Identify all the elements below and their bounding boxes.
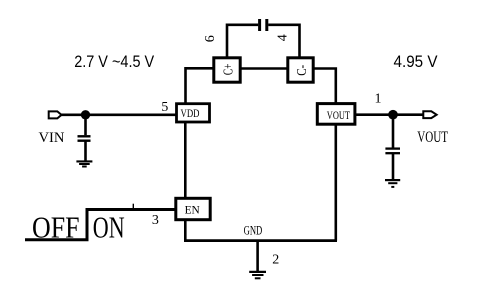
svg-text:1: 1 (375, 92, 382, 107)
svg-text:4: 4 (275, 34, 290, 41)
svg-text:C-: C- (295, 65, 310, 76)
svg-text:VDD: VDD (181, 106, 200, 120)
svg-text:4.95 V: 4.95 V (394, 53, 438, 71)
svg-text:C+: C+ (222, 64, 237, 76)
svg-text:GND: GND (244, 224, 263, 238)
svg-text:ON: ON (93, 210, 125, 245)
svg-text:2: 2 (272, 253, 279, 268)
svg-text:3: 3 (152, 213, 159, 228)
svg-text:EN: EN (185, 203, 201, 216)
svg-text:OFF: OFF (32, 210, 80, 245)
svg-text:VIN: VIN (39, 130, 65, 146)
svg-text:VOUT: VOUT (327, 108, 351, 122)
svg-text:2.7 V ~4.5 V: 2.7 V ~4.5 V (74, 53, 154, 71)
svg-text:5: 5 (161, 99, 168, 114)
svg-text:6: 6 (203, 35, 218, 42)
svg-text:VOUT: VOUT (417, 129, 448, 146)
